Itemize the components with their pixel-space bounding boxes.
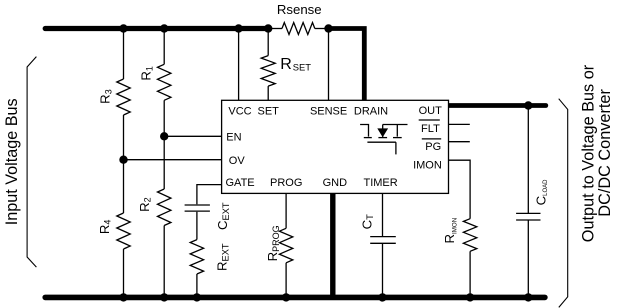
wire: CLOAD top lead from OUT bus [527,106,529,214]
svg-text:OV: OV [229,155,246,167]
wire: CT bottom lead to ground bus [382,244,384,298]
overbar for FLT [419,119,440,121]
wire: RSET top lead [267,29,269,56]
wire: PROG pin lead down [285,193,287,228]
node: junction on input bus #4 [264,24,272,32]
wire: input bus (top thick rail) [45,26,268,31]
wire: OUT bus (thick, to load) [449,103,546,108]
capacitor CLOAD plates [516,213,540,220]
wire: RSET bottom lead to SET pin [267,86,269,100]
svg-text:PROG: PROG [270,177,302,189]
node: OV divider junction [119,156,127,164]
wire: EN net from R1/R2 node to EN pin [164,135,221,137]
resistor RSET [261,56,275,87]
transistor: FET drain rail right segment [383,124,408,126]
svg-text:DRAIN: DRAIN [354,105,388,117]
svg-text:TIMER: TIMER [363,177,397,189]
wire: R4 top lead [123,160,125,213]
wire: R1 bottom to EN node [163,100,165,136]
node: junction on ground bus #2 [160,293,168,301]
IC U1: hot-swap controller body [222,100,449,193]
wire: R4 bottom lead to ground bus [123,249,125,297]
node: junction on input bus #5 [324,24,332,32]
brace: output side bracket [559,99,568,308]
svg-text:GND: GND [323,177,348,189]
wire: bottom ground bus (thick rail) [45,295,545,301]
wire: IMON pin lead right then down [449,160,471,219]
wire: R3 top lead from input bus [123,29,125,80]
node: junction on ground bus #3 [193,293,201,301]
svg-text:VCC: VCC [228,105,251,117]
wire: RPROG bottom lead to ground bus [285,263,287,298]
node: junction on ground bus #5 [378,293,386,301]
resistor REXT [190,240,203,274]
overbar for PG [422,138,441,140]
resistor R3 [117,79,130,115]
node: junction on input bus #3 [234,24,242,32]
transistor: FET arrow head [377,128,388,137]
wire: OV net from R3/R4 node to OV pin [124,159,222,161]
svg-text:GATE: GATE [226,177,255,189]
node: CLOAD junction on OUT bus [524,101,532,109]
wire: FLT pin stub [449,123,470,125]
node: EN divider junction [160,132,168,140]
resistor Rsense [268,28,282,30]
wire: R2 bottom lead to ground bus [163,226,165,298]
node: junction on ground bus #1 [119,293,127,301]
node: junction on ground bus #4 [282,293,290,301]
node: junction on ground bus #6 [466,293,474,301]
transistor: FET gate plate [367,141,396,143]
resistor RPROG [279,228,292,262]
wire: R1 top lead from input bus [163,29,165,65]
node: junction on input bus #2 [160,24,168,32]
node: junction on input bus #1 [119,24,127,32]
resistor RIMON [463,219,476,252]
transistor: FET channel tick middle [378,137,387,139]
wire: GND pin thick lead to ground bus [330,193,335,297]
wire: REXT bottom lead to ground bus [196,274,198,297]
transistor: FET channel tick left [364,137,372,139]
transistor: FET channel tick right [393,137,402,139]
brace: input side bracket [27,57,36,268]
transistor: FET source lead right [396,125,398,137]
wire: SENSE pin lead from bus [328,29,330,101]
wire: GATE pin lead going left [197,185,222,205]
capacitor CEXT plates [185,205,210,211]
wire: VCC pin lead from input bus [238,29,240,101]
capacitor CT plates [370,237,396,244]
resistor R4 [117,213,130,249]
transistor: internal pass FET, drain rail left segment [360,125,368,137]
wire: R2 top lead [163,136,165,189]
wire: PG pin stub [449,141,470,143]
wire: TIMER pin lead down [382,193,384,236]
resistor R2 [158,189,171,226]
wire: top rail from Rsense to DRAIN corner [331,29,364,101]
svg-text:Rsense: Rsense [277,2,322,17]
svg-text:SENSE: SENSE [310,105,347,117]
svg-text:Input Voltage Bus: Input Voltage Bus [3,98,21,225]
svg-text:IMON: IMON [413,159,442,171]
svg-text:EN: EN [226,132,241,144]
svg-text:DC/DC Converter: DC/DC Converter [596,89,614,217]
svg-text:Output to Voltage Bus or: Output to Voltage Bus or [580,64,598,242]
svg-text:OUT: OUT [419,105,443,117]
svg-text:SET: SET [257,105,279,117]
node: junction on ground bus #7 [524,293,532,301]
resistor R1 [158,64,171,100]
transistor: FET gate lead [395,142,397,154]
transistor: FET body-diode arrow lead (middle) [382,125,384,137]
wire: R3 bottom to OV node [123,115,125,160]
wire: CEXT to REXT [196,212,198,240]
svg-text:FLT: FLT [421,123,440,135]
svg-text:PG: PG [425,141,441,153]
wire: CLOAD bottom lead to ground bus [527,220,529,297]
wire: RIMON bottom lead to ground bus [469,251,471,297]
